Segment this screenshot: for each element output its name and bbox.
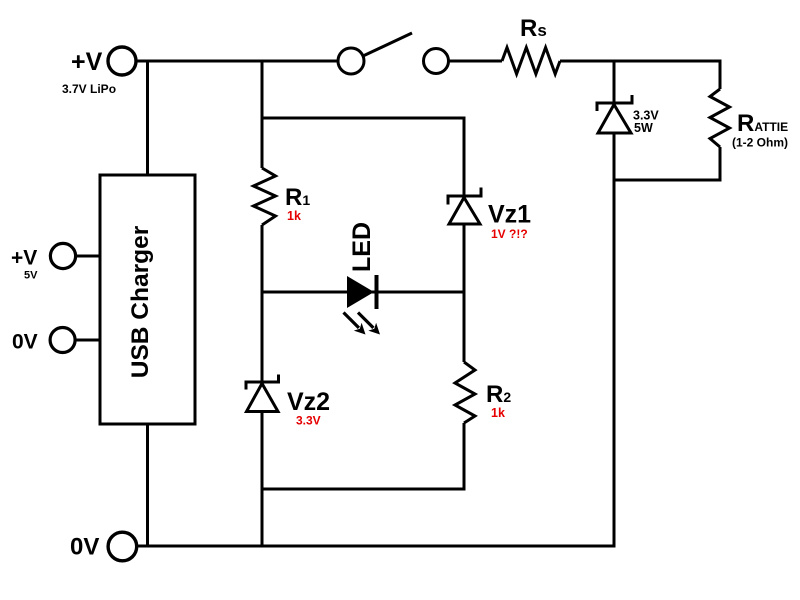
- svg-text:Vz2: Vz2: [287, 388, 330, 416]
- LED D1: [344, 222, 381, 335]
- wire top rail left: [136, 60, 338, 63]
- terminal +V battery: [108, 47, 136, 75]
- svg-text:(1-2 Ohm): (1-2 Ohm): [732, 136, 788, 150]
- wire Vz2 to inner bottom rail: [261, 412, 264, 548]
- wire R2 branch: [463, 292, 466, 362]
- svg-text:LED: LED: [348, 222, 376, 272]
- svg-text:3.3V: 3.3V: [296, 414, 321, 428]
- wire battery to charger: [146, 61, 149, 175]
- wire Vz1 to LED row: [463, 224, 466, 292]
- svg-text:3.7V LiPo: 3.7V LiPo: [62, 82, 116, 96]
- wire inner right branch top: [463, 118, 466, 196]
- svg-text:1V ?!?: 1V ?!?: [491, 227, 528, 241]
- wire flasher left branch top: [261, 61, 264, 168]
- switch S1: [338, 33, 449, 74]
- wire zener to bottom rail: [613, 133, 616, 548]
- zener diode Vz2: [246, 375, 279, 412]
- svg-text:0V: 0V: [70, 534, 99, 561]
- wire LED row to Vz2: [261, 292, 264, 382]
- resistor R1: [254, 168, 276, 225]
- wire LED row: [262, 291, 464, 294]
- resistor R2: [455, 362, 475, 423]
- terminal +V 5V: [50, 243, 75, 268]
- svg-text:USB Charger: USB Charger: [127, 225, 154, 378]
- wire switch to Rs: [449, 60, 503, 63]
- wire RATTIE bottom link: [614, 179, 722, 182]
- svg-text:5V: 5V: [24, 270, 38, 282]
- wire bottom rail: [137, 545, 616, 548]
- wire R2 to inner bottom rail: [463, 423, 466, 491]
- svg-text:+V: +V: [71, 48, 103, 76]
- wire right shunt branch down: [613, 61, 616, 103]
- svg-text:Vz1: Vz1: [488, 201, 531, 229]
- USB charger U1: [100, 175, 195, 424]
- resistor RATTIE: [710, 61, 730, 182]
- zener diode Vz1: [448, 188, 481, 225]
- svg-text:5W: 5W: [634, 121, 653, 135]
- wire 0V input: [75, 339, 100, 342]
- svg-text:0V: 0V: [12, 331, 38, 354]
- svg-text:+V: +V: [11, 247, 37, 270]
- svg-text:1k: 1k: [287, 209, 301, 223]
- wire 5V input: [76, 255, 100, 258]
- terminal 0V input: [50, 328, 75, 353]
- wire inner top rail: [262, 117, 466, 120]
- wire charger to bottom rail: [146, 424, 149, 548]
- resistor Rs: [502, 48, 560, 75]
- terminal 0V bottom: [108, 532, 137, 561]
- wire R1 to LED row: [261, 225, 264, 294]
- wire inner bottom rail: [262, 488, 466, 491]
- wire Rs to right corner: [560, 60, 722, 63]
- zener diode D3 3.3V 5W: [597, 95, 632, 133]
- svg-text:1k: 1k: [491, 406, 505, 420]
